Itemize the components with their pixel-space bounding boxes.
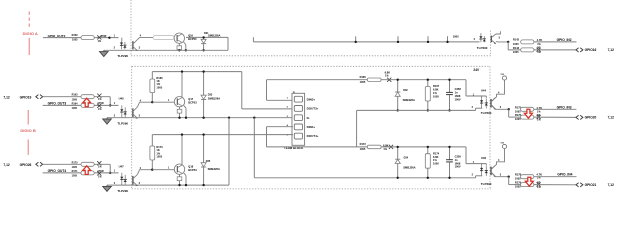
opto U46 LED pair [481, 164, 483, 166]
svg-text:D33: D33 [208, 94, 213, 97]
resistor R173 top lead [151, 135, 153, 146]
svg-text:100V: 100V [455, 165, 461, 169]
net class marker DIGIO B line upper [27, 110, 29, 125]
wire U44 pin2 [475, 108, 477, 110]
diode D33 junction top [202, 70, 204, 72]
svg-text:1n: 1n [455, 91, 458, 95]
wire base Q17 [152, 101, 174, 103]
red change marker arrow down mid right [524, 109, 532, 118]
svg-text:7,12: 7,12 [3, 96, 10, 100]
off-page connector GPIO19 [36, 95, 43, 99]
svg-text:TLP290: TLP290 [117, 122, 128, 126]
ground symbol mid channel [103, 118, 112, 124]
diode D32 junction bottom [397, 109, 399, 111]
diode D34 symbol [395, 159, 400, 163]
diode D34 lead [397, 147, 399, 178]
wire GPIO_OUT3 [43, 104, 119, 106]
opto U47 phototransistor [132, 176, 134, 185]
svg-text:7,12: 7,12 [608, 116, 615, 120]
resistor R170 body [81, 162, 94, 166]
opto U42 phototransistor [490, 36, 492, 43]
svg-text:R172: R172 [360, 142, 367, 146]
svg-text:TERM BLOCK: TERM BLOCK [284, 146, 304, 150]
svg-text:U46: U46 [481, 156, 487, 160]
svg-text:DIN4+: DIN4+ [307, 125, 316, 129]
NF cross mark after R164 [97, 104, 101, 108]
svg-text:R167: R167 [433, 84, 440, 88]
wire branch to R176 [508, 109, 510, 117]
svg-text:1005: 1005 [453, 35, 459, 39]
wire D- emitter rail bottom [107, 184, 229, 186]
svg-text:1005: 1005 [360, 147, 366, 151]
svg-text:2: 2 [474, 38, 476, 41]
svg-text:2: 2 [287, 107, 289, 109]
svg-text:D34: D34 [404, 157, 409, 160]
svg-text:1%: 1% [537, 51, 541, 54]
svg-text:1%: 1% [98, 165, 102, 168]
junction dot D- x229 [228, 117, 230, 119]
svg-text:NF: NF [537, 114, 541, 117]
svg-text:1005: 1005 [360, 80, 366, 84]
svg-text:NF: NF [537, 47, 541, 50]
isolation barrier box 24V right edge [489, 66, 491, 189]
wire GPIO26 to R170 [43, 163, 81, 165]
wire U44 emitter to junction [491, 105, 509, 110]
wire D- down to RC return [253, 118, 255, 178]
svg-text:Q18: Q18 [188, 164, 193, 168]
24V collector rail bottom [152, 134, 293, 136]
svg-text:SMBJ26A: SMBJ26A [403, 166, 415, 170]
diode D31 vertical lead [203, 37, 205, 50]
junction dot top input [108, 37, 110, 39]
resistor R142 body [521, 40, 534, 44]
svg-text:GPIO_IN2: GPIO_IN2 [557, 38, 572, 42]
opto U47 LED pair [121, 173, 123, 174]
wire top channel right edge vertical [227, 37, 229, 50]
svg-text:TLP290: TLP290 [481, 111, 492, 115]
svg-text:DIGIO B: DIGIO B [20, 128, 35, 133]
diode D31 junction bottom [202, 49, 204, 51]
svg-text:U47: U47 [119, 164, 125, 168]
off-page connector GPIO16 [576, 48, 583, 52]
resistor R165 body [367, 78, 381, 82]
wire GPIO_OUT4 [43, 172, 119, 174]
wire DIN3 net to RC [267, 79, 368, 81]
svg-text:1n: 1n [455, 158, 458, 162]
junction dot U45 input [109, 104, 111, 106]
svg-text:U44: U44 [481, 88, 487, 92]
svg-text:1: 1 [114, 102, 116, 105]
svg-text:Q16: Q16 [188, 33, 193, 37]
resistor R166 top lead [151, 72, 153, 79]
svg-text:7,12: 7,12 [608, 48, 615, 52]
svg-text:GPIO_IN4: GPIO_IN4 [557, 173, 572, 177]
wire DIN2 field line [253, 41, 479, 43]
wire U45 collector pin 4 [138, 102, 153, 107]
wire U47 collector pin 4 [138, 170, 153, 175]
wire GPIO_IN2 [534, 41, 577, 43]
svg-text:1%: 1% [537, 110, 541, 113]
isolation barrier box 24V top edge [132, 65, 490, 67]
wire U46 pin1 [465, 147, 467, 164]
wire base Q18 [152, 169, 174, 171]
wire GPIO_OUT2 input [43, 37, 81, 39]
wire to GPIO20 connector [534, 116, 576, 118]
svg-text:TLP290: TLP290 [477, 46, 488, 50]
resistor R166 bottom lead [151, 93, 153, 103]
opto U45 phototransistor [132, 108, 134, 117]
stub branch resistor [427, 36, 429, 42]
24V collector rail mid [152, 71, 242, 73]
wire U46 pin2 [475, 176, 477, 178]
stub branch capacitor [447, 36, 449, 42]
svg-text:R142: R142 [513, 38, 520, 42]
wire DIN4 to bottom RC [267, 146, 368, 148]
svg-text:GPIO_OUT2: GPIO_OUT2 [48, 34, 66, 38]
svg-text:NF: NF [537, 181, 541, 184]
resistor R176 body NF [521, 115, 534, 119]
svg-text:1005: 1005 [513, 42, 519, 46]
svg-text:DOUT4+: DOUT4+ [307, 134, 319, 138]
resistor R172 body [367, 145, 381, 149]
diode D35 junction top [202, 133, 204, 135]
opto U42 LED pair [480, 36, 482, 43]
red change marker arrow up bottom left [83, 166, 91, 175]
junction dot GPIO21 branch [508, 176, 510, 178]
svg-text:1005: 1005 [156, 85, 162, 89]
svg-text:1: 1 [114, 34, 116, 37]
resistor R175 body [521, 107, 534, 111]
svg-text:2: 2 [114, 115, 116, 118]
svg-text:C359: C359 [455, 155, 462, 159]
svg-text:4.7K: 4.7K [537, 38, 543, 42]
svg-text:6.8K: 6.8K [433, 155, 439, 159]
resistor R164 body [81, 103, 94, 107]
svg-text:1005: 1005 [72, 107, 78, 110]
connector J5 pad 3 [294, 115, 302, 121]
svg-text:GPIO20: GPIO20 [585, 116, 597, 120]
wire Q16 collector rail top [186, 36, 228, 38]
svg-text:1: 1 [287, 97, 289, 99]
resistor R176 NF cross [537, 115, 541, 119]
capacitor C359 top lead [449, 147, 451, 160]
svg-text:3: 3 [500, 174, 502, 177]
transistor Q16 [174, 33, 184, 43]
svg-text:470R: 470R [101, 35, 107, 38]
resistor R179 body NF [521, 183, 534, 187]
resistor R173 body [150, 146, 155, 160]
capacitor C358 symbol [446, 91, 453, 93]
svg-text:1%: 1% [383, 148, 387, 151]
wire R163 to corner [94, 96, 110, 98]
off-page connector GPIO20 [576, 115, 583, 119]
wire RC node bottom [381, 146, 466, 148]
svg-text:1005: 1005 [513, 50, 519, 54]
off-page connector GPIO21 [576, 183, 583, 187]
svg-text:SMBJ26A: SMBJ26A [208, 167, 220, 171]
resistor R143 NF cross [537, 48, 541, 52]
svg-text:D32: D32 [403, 89, 408, 92]
opto U43 LED pair [121, 38, 123, 42]
wire U44 pin1 [465, 80, 467, 96]
wire DIN3 from pin1 [266, 80, 268, 101]
power symbol 5V mid [502, 76, 506, 80]
NF cross mark after R170 [97, 161, 101, 165]
wire D- return to RC bottom [254, 177, 475, 179]
svg-text:GPIO_OUT3: GPIO_OUT3 [48, 102, 67, 106]
svg-text:2: 2 [472, 106, 474, 109]
power symbol 5V bottom [502, 144, 506, 148]
capacitor C358 top lead [449, 80, 451, 93]
resistor R171 body [81, 171, 94, 175]
svg-text:SMBJ26A: SMBJ26A [208, 96, 220, 100]
net class marker DIGIO B line lower [27, 140, 29, 156]
connector J5 pad 4 [294, 124, 302, 130]
isolation barrier box 24V bottom edge [132, 188, 491, 190]
svg-text:R163: R163 [72, 94, 78, 97]
svg-text:R159: R159 [72, 34, 78, 37]
wire U46 collector to 5V [491, 149, 504, 169]
wire to GPIO21 connector [534, 184, 576, 186]
svg-text:DIGIO A: DIGIO A [23, 31, 38, 36]
isolation barrier box top channel left edge [130, 0, 132, 56]
resistor R173 bottom lead [151, 160, 153, 170]
wire RC node mid [381, 79, 466, 81]
wire D- down to bottom channel [228, 118, 230, 185]
svg-text:TLP290: TLP290 [117, 54, 128, 58]
svg-text:GPIO21: GPIO21 [585, 183, 597, 187]
diode D32 lead [397, 80, 399, 111]
svg-text:R171: R171 [72, 170, 78, 173]
svg-text:R143: R143 [513, 46, 520, 50]
svg-text:R170: R170 [72, 161, 78, 164]
capacitor C359 bottom lead [449, 162, 451, 178]
wire U42 collector pin 4 stub [496, 31, 501, 34]
diode D32 junction top [397, 79, 399, 81]
connector J5 pad 5 [294, 133, 302, 139]
svg-text:7,12: 7,12 [3, 163, 10, 167]
svg-text:7,12: 7,12 [608, 183, 615, 187]
diode D33 symbol [201, 95, 206, 99]
opto U44 phototransistor [490, 99, 492, 108]
diode D34 junction bottom [397, 177, 399, 179]
svg-text:1005: 1005 [72, 98, 78, 101]
diode D32 symbol [395, 92, 400, 96]
red change marker arrow up mid left [83, 98, 91, 107]
resistor R178 body [521, 175, 534, 179]
svg-text:1%: 1% [98, 108, 102, 111]
net class marker DIGIO A dashed line upper [28, 12, 30, 29]
wire GPIO19 to R163 [43, 96, 81, 98]
svg-text:100V: 100V [455, 97, 461, 101]
isolation barrier box top channel bottom edge [131, 55, 491, 57]
junction dot GPIO16 branch [507, 41, 509, 43]
wire RC return to DIN4 row [356, 110, 358, 146]
wire DIN4 from pin4 [267, 126, 294, 128]
svg-text:R165: R165 [360, 75, 367, 79]
svg-text:3: 3 [139, 47, 141, 50]
svg-text:24V: 24V [473, 68, 480, 72]
svg-text:3: 3 [499, 37, 501, 40]
junction dot GPIO20 branch [508, 108, 510, 110]
wire U42 emitter to junction [496, 41, 508, 43]
svg-text:Q17: Q17 [188, 97, 193, 101]
resistor R167 bottom lead [427, 101, 429, 110]
svg-text:1005: 1005 [433, 162, 439, 166]
wire U43 pin2 to ground rail [104, 49, 134, 51]
transistor Q17 [174, 97, 184, 107]
svg-text:D35: D35 [206, 160, 211, 163]
resistor R167 top lead [427, 80, 429, 87]
diode D33 vertical lead [203, 72, 205, 118]
svg-text:2: 2 [114, 47, 116, 50]
resistor R163 body [81, 95, 94, 99]
wire GPIO_IN3 [534, 108, 577, 110]
opto U44 LED pair [481, 96, 483, 98]
connector J5 TERM BLOCK body [292, 93, 305, 145]
NF cross after R172 [389, 145, 393, 149]
net class marker DIGIO A line lower [28, 38, 30, 55]
svg-text:4: 4 [140, 34, 142, 37]
red change marker arrow down bottom right [525, 177, 533, 186]
opto U45 LED pair [121, 105, 123, 106]
resistor R160 body faint [153, 36, 174, 40]
wire to GPIO16 connector [534, 49, 576, 51]
svg-text:3: 3 [139, 115, 141, 118]
svg-text:3: 3 [500, 106, 502, 109]
svg-text:1005: 1005 [72, 166, 78, 169]
svg-text:1005: 1005 [72, 38, 78, 41]
svg-text:DIN3+: DIN3+ [307, 97, 316, 101]
svg-text:1608: 1608 [455, 161, 461, 165]
svg-text:1: 1 [114, 170, 116, 173]
transistor Q18 [174, 164, 184, 174]
isolation barrier box top channel right edge / opto divider [490, 31, 492, 56]
isolation barrier box 24V left edge [131, 66, 133, 189]
off-page connector GPIO26 [36, 162, 43, 166]
diode D35 junction bottom [202, 184, 204, 186]
svg-text:C358: C358 [455, 87, 462, 91]
resistor R179 NF cross [537, 182, 541, 186]
svg-text:R174: R174 [433, 151, 440, 155]
stub branch diode D30 [397, 36, 399, 42]
wire branch to R179 [508, 177, 510, 185]
diode D33 junction bottom [202, 117, 204, 119]
wire D- emitter rail mid [107, 117, 293, 119]
svg-text:GPIO26: GPIO26 [20, 163, 32, 167]
wire DIN2 field line vertical stub [252, 37, 254, 42]
svg-text:GPIO19: GPIO19 [20, 96, 32, 100]
junction dot U47 input [109, 172, 111, 174]
resistor R174 body [425, 154, 430, 169]
resistor R159 body [81, 36, 94, 40]
svg-text:1005: 1005 [156, 155, 162, 159]
stub branch x356 [355, 36, 357, 42]
resistor R174 bottom lead [427, 168, 429, 178]
diode D31 symbol [201, 39, 206, 43]
svg-text:1%: 1% [385, 75, 389, 78]
svg-text:1608: 1608 [455, 94, 461, 98]
junction dot Q17 base node [151, 101, 153, 103]
wire 24V rail to DOUT3 pin2 [241, 72, 243, 109]
connector J5 pad 2 [294, 106, 302, 112]
NF cross mark after R171 [97, 171, 101, 175]
opto U46 phototransistor [490, 167, 492, 176]
NF cross after R165 [387, 78, 391, 82]
svg-text:1005: 1005 [72, 175, 78, 178]
svg-text:DOUT3+: DOUT3+ [307, 107, 319, 111]
svg-text:TLP290: TLP290 [117, 189, 128, 192]
svg-text:GPIO16: GPIO16 [585, 48, 597, 52]
svg-text:1005: 1005 [433, 94, 439, 98]
diode D35 vertical lead [203, 135, 205, 186]
capacitor C358 bottom lead [449, 95, 451, 111]
wire U44 collector to 5V [491, 80, 504, 101]
wire GPIO_IN4 [534, 176, 577, 178]
svg-text:TLP290: TLP290 [481, 182, 492, 186]
svg-text:BCP53: BCP53 [188, 100, 197, 104]
svg-text:2: 2 [472, 174, 474, 177]
resistor R174 top lead [427, 147, 429, 154]
wire RC return rail mid [357, 109, 476, 111]
diode D31 junction top [202, 36, 204, 38]
svg-text:R164: R164 [72, 102, 78, 105]
wire U43 collector pin 4 [138, 37, 154, 39]
resistor R167 body [425, 87, 430, 102]
resistor R143 body NF [521, 48, 534, 52]
NF capacitor cross mark top channel [97, 35, 101, 39]
wire branch to R143 [507, 42, 509, 50]
svg-text:3: 3 [139, 182, 141, 185]
wire R159 to junction [94, 37, 118, 39]
svg-text:GPIO_IN3: GPIO_IN3 [557, 105, 572, 109]
opto U43 phototransistor [132, 41, 134, 49]
svg-text:1%: 1% [98, 98, 102, 101]
connector J5 pad 1 [294, 96, 302, 102]
resistor R166 body [150, 79, 155, 93]
capacitor C359 symbol [446, 159, 453, 161]
junction dot D- x254 [253, 117, 255, 119]
wire top channel emitter rail [134, 49, 228, 51]
diode D34 junction top [397, 146, 399, 148]
diode D35 symbol [201, 163, 206, 167]
svg-text:D-: D- [307, 116, 310, 120]
wire U46 emitter to junction [491, 172, 509, 176]
junction dot Q18 base node [151, 169, 153, 171]
svg-text:SMBJ26A: SMBJ26A [403, 98, 415, 102]
svg-text:BCP53: BCP53 [188, 168, 197, 172]
svg-text:U45: U45 [119, 97, 125, 101]
svg-text:SMBJ26A: SMBJ26A [208, 34, 220, 38]
ground symbol bottom channel [103, 185, 112, 191]
NF cross mark after R163 [97, 94, 101, 98]
svg-text:6.8K: 6.8K [433, 88, 439, 92]
svg-text:1%: 1% [98, 176, 102, 179]
svg-text:1%: 1% [98, 40, 102, 43]
wire R170 to corner [94, 163, 110, 165]
ground symbol top channel [100, 50, 109, 56]
